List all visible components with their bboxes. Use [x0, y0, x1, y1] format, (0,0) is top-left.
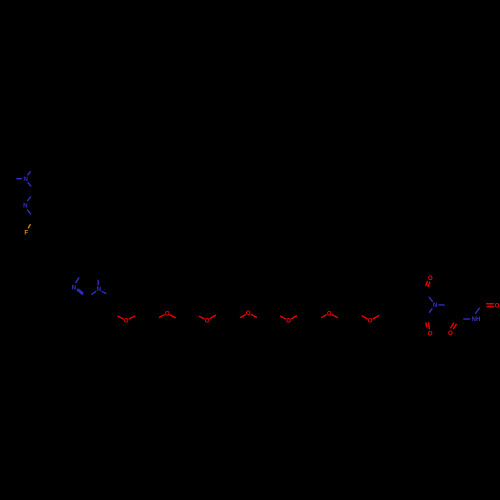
bond O6-C right (half-bond) — [332, 315, 338, 318]
bond N-C (down-right half-bond) — [28, 182, 32, 186]
bond N-C1 (half-bond up-left) — [429, 297, 433, 302]
bond C-O3 left (half-bond) — [199, 316, 205, 319]
bond N3-C2 (half-bond) — [91, 291, 96, 294]
svg-text:O: O — [448, 330, 453, 337]
bond C-F (half-bond) — [28, 224, 30, 228]
svg-text:O: O — [286, 318, 291, 325]
bond C-N (up-right half-bond) — [27, 196, 31, 201]
atom N (dimethylamino N) — [23, 176, 28, 183]
svg-text:N: N — [23, 176, 28, 183]
svg-text:O: O — [428, 330, 433, 337]
atom O7 (ether O) — [368, 318, 373, 325]
svg-text:O: O — [428, 275, 433, 282]
bond O7-C right (half-bond) — [373, 315, 380, 319]
bond N-CH (half-bond right) — [438, 304, 444, 306]
bond N1=C2 double (half-bonds) — [77, 289, 84, 295]
atom O3 (ether O) — [205, 317, 210, 324]
bond O5-C right (half-bond) — [291, 316, 297, 319]
bond NH-C6 (half-bond up-right) — [475, 308, 479, 314]
bond N-C (down-right half-bond) — [27, 210, 31, 215]
bond C-O1 left (half-bond) — [118, 316, 124, 319]
bond O2-C right (half-bond) — [170, 315, 176, 318]
bond O4-C right (half-bond) — [251, 314, 257, 317]
svg-text:O: O — [368, 318, 373, 325]
bond C-O6 left (half-bond) — [321, 315, 327, 318]
atom O1 (ether O) — [124, 318, 129, 325]
svg-text:O: O — [327, 310, 332, 317]
atom N (imine N) — [23, 203, 28, 210]
svg-text:O: O — [246, 310, 251, 317]
svg-text:F: F — [24, 230, 28, 237]
bond C-O2 left (half-bond) — [159, 315, 165, 318]
atom O (glutarimide C6 carbonyl O) — [495, 302, 500, 309]
bond N1-C5 (half-bond) — [76, 278, 80, 284]
bond C1=O double (half-bonds) — [426, 281, 430, 287]
bond C-O7 left (half-bond) — [362, 316, 368, 319]
bond N-CH3 (up-right methyl half-bond) — [28, 171, 31, 175]
bond C6=O double (half-bonds horizontal) — [486, 304, 494, 307]
atom O4 (ether O) — [246, 310, 251, 317]
svg-text:N: N — [72, 285, 77, 292]
bond NH-C2 (half-bond left) — [463, 318, 470, 320]
bond N3-CH2 (exocyclic half-bond) — [102, 291, 107, 294]
atom NH (glutarimide NH) — [472, 316, 481, 323]
atom N1 (imidazole N1) — [72, 285, 77, 292]
atom O5 (ether O) — [286, 318, 291, 325]
svg-text:N: N — [97, 286, 102, 293]
atom F (fluorine) — [24, 230, 28, 237]
bond C2=O double (half-bonds) — [450, 323, 456, 329]
bond N-CH3 (left methyl half-bond) — [16, 178, 22, 180]
atom O (glutarimide C2 carbonyl O) — [448, 330, 453, 337]
svg-text:O: O — [165, 311, 170, 318]
bond O1-C right (half-bond) — [129, 316, 135, 319]
svg-text:O: O — [495, 302, 500, 309]
svg-text:O: O — [124, 318, 129, 325]
svg-text:O: O — [205, 317, 210, 324]
atom O (phthalimide bottom carbonyl O) — [428, 330, 433, 337]
bond C-O5 left (half-bond) — [280, 316, 286, 319]
svg-text:N: N — [433, 302, 438, 309]
atom O (phthalimide top carbonyl O) — [428, 275, 433, 282]
svg-text:N: N — [23, 203, 28, 210]
atom N3 (imidazole N3) — [97, 286, 102, 293]
bond N-C3 (half-bond down-left) — [429, 308, 432, 312]
svg-text:NH: NH — [472, 316, 481, 323]
bond C3=O double (half-bonds) — [426, 322, 430, 329]
bond N3-C4 (half-bond vertical) — [97, 280, 99, 286]
atom N (phthalimide N) — [433, 302, 438, 309]
bond C-O4 left (half-bond) — [240, 315, 246, 318]
bond O3-C right (half-bond) — [210, 315, 216, 319]
atom O2 (ether O) — [165, 311, 170, 318]
atom O6 (ether O) — [327, 310, 332, 317]
